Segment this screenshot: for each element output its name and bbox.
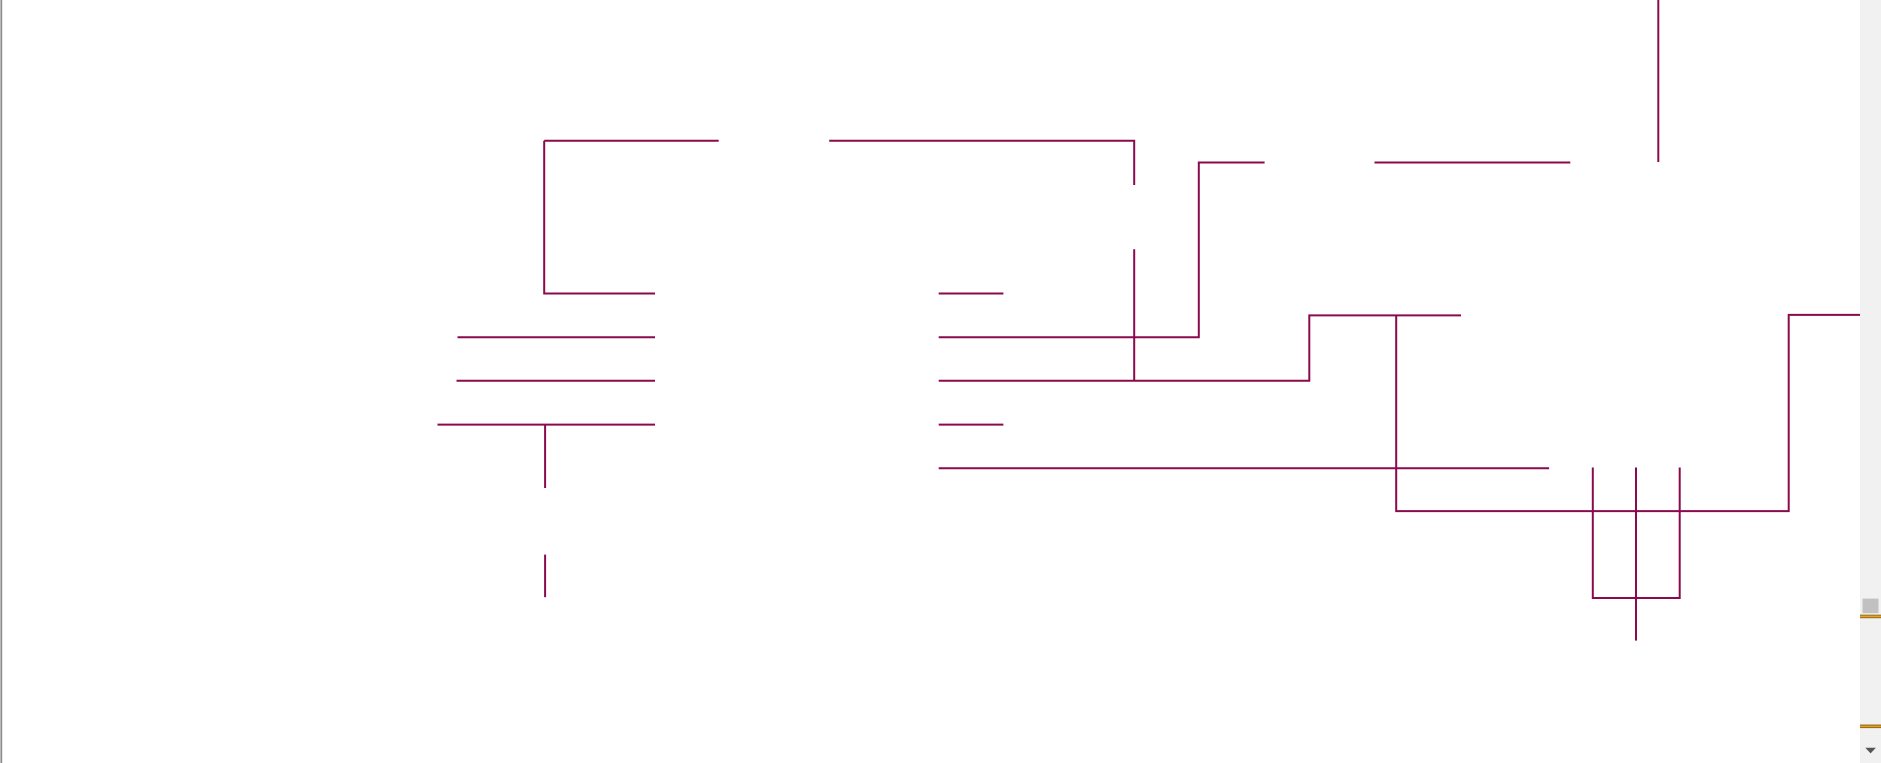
BLUE_SYMBOLS bbox=[0, 0, 1, 1]
scrollbar down arrow bbox=[1865, 748, 1876, 754]
RED_SEGMENTS bbox=[0, 0, 1, 1]
RED_SYMBOLS bbox=[0, 0, 1, 1]
wire PCG5 bottom to ground bbox=[544, 555, 546, 598]
scrollbar marker line 1 bbox=[1860, 614, 1881, 617]
wire S2-3 down to junction bbox=[1593, 468, 1636, 599]
left window border bbox=[0, 0, 2, 763]
JUNCTIONS bbox=[0, 0, 1, 1]
wire VSW node down and around to VSW1_ stub bbox=[1396, 315, 1860, 511]
wire D1 from top edge bbox=[1657, 0, 1659, 162]
wire PRG3 pin2 to G1 bbox=[1375, 162, 1571, 164]
wire GND pin6 to arrow bbox=[939, 424, 1004, 426]
wire PWM from port bbox=[458, 336, 656, 338]
wire S2-2 down to junction bbox=[1635, 468, 1637, 599]
wire DRVL1_VCCGT to G2 bbox=[939, 467, 1549, 469]
scrollbar marker line 2 bbox=[1860, 724, 1881, 727]
TEXTS bbox=[0, 0, 1, 1]
wire junction to PQG1 ground bbox=[1635, 598, 1637, 641]
WIRES_MAROON bbox=[438, 0, 1861, 641]
scrollbar thumb bbox=[1863, 599, 1879, 614]
wire BOOT1_VCCGT right segment to PCG6 bbox=[829, 141, 1134, 185]
wire S2-1 down to junction bbox=[1636, 468, 1680, 599]
wire FLAG to arrow bbox=[939, 293, 1004, 295]
wire +5VALW junction down to PCG5 bbox=[544, 425, 546, 488]
wire SW node horizontal bbox=[939, 315, 1461, 380]
wire BOOT1_VCCGT left segment bbox=[544, 140, 719, 142]
wire +5VALW to VCC bbox=[438, 424, 656, 426]
scrollbar track bbox=[1860, 0, 1881, 763]
wire DRVH to PRG3 bbox=[939, 163, 1265, 338]
wire BOOT1 vertical to BST bbox=[544, 141, 655, 294]
wire PCG6 bottom to SW node bbox=[1133, 249, 1135, 380]
wire DRVON to EN bbox=[457, 380, 656, 382]
